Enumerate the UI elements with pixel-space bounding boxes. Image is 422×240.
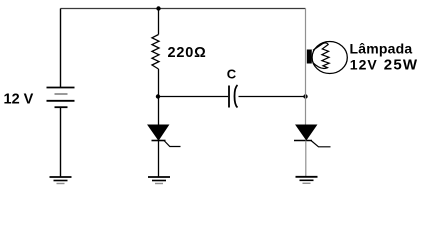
SCR Q2 cathode bar xyxy=(294,140,312,142)
node junction middle-left xyxy=(156,94,160,98)
lamp filament xyxy=(313,43,329,69)
SCR Q2 triangle xyxy=(296,125,317,140)
svg-text:12 V: 12 V xyxy=(4,92,34,108)
ground (SCR Q2) xyxy=(296,177,318,184)
SCR Q1 gate xyxy=(164,141,181,147)
svg-text:12V25W: 12V25W xyxy=(350,56,418,73)
wire battery to ground xyxy=(60,107,62,177)
capacitor C xyxy=(229,85,238,108)
wire left vertical (battery branch top) xyxy=(60,9,62,88)
svg-text:220Ω: 220Ω xyxy=(168,45,207,61)
SCR Q1 cathode bar xyxy=(152,140,166,142)
SCR Q1 (left) anode wire xyxy=(158,97,160,126)
lamp L1 bulb xyxy=(312,42,347,74)
resistor R1 220ohm xyxy=(152,35,159,70)
SCR Q2 cathode wire xyxy=(305,141,307,177)
wire right vertical (top corner down to node) xyxy=(305,9,307,97)
node junction top (resistor tap) xyxy=(156,6,160,10)
SCR Q1 triangle xyxy=(148,125,169,140)
SCR Q2 (right) anode wire xyxy=(305,97,307,126)
ground (battery) xyxy=(50,177,72,184)
svg-text:Lâmpada: Lâmpada xyxy=(350,41,413,57)
lamp base xyxy=(307,50,312,64)
wire middle horizontal right (capacitor to node) xyxy=(239,96,306,98)
wire top horizontal xyxy=(61,8,306,10)
battery B1 12V xyxy=(47,88,75,108)
SCR Q1 cathode wire xyxy=(158,141,160,177)
SCR Q2 gate xyxy=(311,141,331,147)
wire middle horizontal left (node to capacitor) xyxy=(159,96,229,98)
node junction middle-right xyxy=(303,94,307,98)
wire top to resistor xyxy=(158,9,160,35)
svg-text:C: C xyxy=(227,67,237,82)
ground (SCR Q1) xyxy=(148,177,170,184)
wire resistor to middle node xyxy=(158,69,160,97)
